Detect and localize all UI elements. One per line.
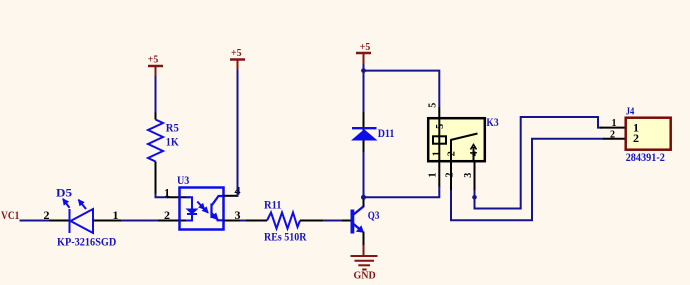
svg-text:REs 510R: REs 510R bbox=[264, 229, 307, 243]
svg-text:1: 1 bbox=[612, 118, 617, 129]
svg-text:2: 2 bbox=[447, 151, 458, 156]
ground GND bbox=[363, 245, 365, 256]
U3 internal phototransistor bbox=[212, 196, 223, 220]
svg-text:5: 5 bbox=[435, 124, 446, 129]
svg-text:GND: GND bbox=[354, 270, 377, 281]
svg-text:1: 1 bbox=[164, 185, 170, 199]
svg-text:VC1: VC1 bbox=[1, 208, 19, 222]
pin collector of Q3 bbox=[363, 197, 365, 207]
resistor R11 bbox=[267, 213, 300, 229]
svg-text:U3: U3 bbox=[177, 173, 189, 187]
relay outside pin numbers bbox=[428, 173, 474, 178]
svg-text:2: 2 bbox=[633, 131, 639, 145]
relay contact arrow pin 3 bbox=[473, 147, 475, 162]
wire D11 to Q3 collector node bbox=[363, 152, 365, 197]
pin emitter of Q3 bbox=[363, 232, 365, 246]
resistor R5 1K bbox=[148, 120, 163, 162]
pin top of R5 bbox=[155, 113, 157, 120]
svg-text:J4: J4 bbox=[626, 107, 635, 118]
pin left of R11 bbox=[246, 220, 267, 222]
wire R5 to U3 pin 1 bbox=[156, 194, 169, 198]
wire relay pin2 to J4 pin2 bbox=[451, 139, 604, 221]
relay inside pin numbers bbox=[432, 151, 481, 156]
pin 2 of relay (bottom) bbox=[450, 162, 452, 191]
pin 3 of U3 bbox=[224, 220, 241, 222]
svg-text:284391-2: 284391-2 bbox=[626, 150, 665, 164]
relay switch blade bbox=[450, 140, 452, 163]
wire relay pin1 to Q3 collector bbox=[364, 186, 440, 197]
svg-text:R5: R5 bbox=[166, 121, 179, 135]
wire +5 down to U3 pin 4 bbox=[237, 70, 240, 196]
svg-text:1: 1 bbox=[428, 173, 439, 178]
U3 internal LED bbox=[186, 197, 208, 220]
pin 5 of relay (top stub) bbox=[438, 107, 440, 120]
diode D5 bbox=[63, 199, 93, 233]
svg-text:K3: K3 bbox=[486, 115, 498, 129]
pin 1 of J4 bbox=[600, 127, 625, 129]
svg-text:2: 2 bbox=[610, 130, 615, 141]
svg-text:1: 1 bbox=[432, 151, 443, 156]
transistor Q3 bbox=[351, 210, 355, 234]
svg-text:2: 2 bbox=[44, 208, 50, 222]
node junction at Q3 collector bbox=[361, 195, 366, 200]
relay K3 bbox=[428, 118, 485, 161]
pin 2 of D5 bbox=[49, 220, 69, 222]
svg-text:+5: +5 bbox=[148, 55, 159, 66]
svg-text:+5: +5 bbox=[360, 42, 371, 53]
svg-text:2: 2 bbox=[164, 208, 170, 222]
node junction at +5 bbox=[361, 68, 366, 73]
wire R11 to Q3 base bbox=[323, 220, 342, 222]
svg-text:KP-3216SGD: KP-3216SGD bbox=[57, 234, 117, 248]
pin 1 of D5 bbox=[93, 220, 121, 222]
pin 1 of relay (bottom) bbox=[438, 162, 440, 187]
pin right of R11 bbox=[300, 220, 323, 222]
pin 2 of J4 bbox=[603, 138, 625, 140]
op-amp U3 optocoupler box bbox=[180, 188, 224, 230]
pin 4 of U3 bbox=[224, 195, 239, 197]
svg-text:5: 5 bbox=[428, 103, 439, 108]
svg-text:3: 3 bbox=[235, 208, 241, 222]
svg-text:1K: 1K bbox=[166, 135, 180, 149]
pin 1 of U3 bbox=[167, 196, 191, 198]
wire D5 to U3 bbox=[121, 220, 159, 222]
wire relay pin3 to J4 pin1 bbox=[475, 117, 602, 209]
node junction on relay pin3 wire bbox=[472, 195, 477, 200]
svg-text:D5: D5 bbox=[56, 185, 72, 199]
svg-text:3: 3 bbox=[463, 173, 474, 178]
diode D11 bbox=[352, 127, 377, 129]
connector J4 bbox=[626, 118, 671, 150]
svg-text:4: 4 bbox=[469, 151, 480, 156]
svg-text:1: 1 bbox=[113, 208, 119, 222]
wire +5 to R5 bbox=[155, 76, 157, 113]
pin 3 of relay (bottom) bbox=[474, 162, 476, 191]
pin bottom of R5 bbox=[155, 162, 157, 195]
wire VC1 to D5 bbox=[20, 220, 51, 222]
svg-text:D11: D11 bbox=[378, 126, 395, 140]
wire node down to D11 bbox=[363, 71, 365, 114]
relay coil K3 bbox=[433, 136, 446, 143]
svg-text:Q3: Q3 bbox=[368, 208, 380, 222]
wire node to relay pin 5 bbox=[364, 71, 440, 107]
pin of D11 (through) bbox=[363, 112, 365, 152]
wire U3 pin3 to R11 bbox=[240, 220, 247, 222]
svg-text:R11: R11 bbox=[264, 198, 282, 212]
svg-text:+5: +5 bbox=[231, 48, 242, 59]
pin base of Q3 bbox=[342, 220, 351, 222]
wire +5 to node bbox=[363, 64, 365, 71]
pin 2 of U3 bbox=[158, 220, 191, 222]
